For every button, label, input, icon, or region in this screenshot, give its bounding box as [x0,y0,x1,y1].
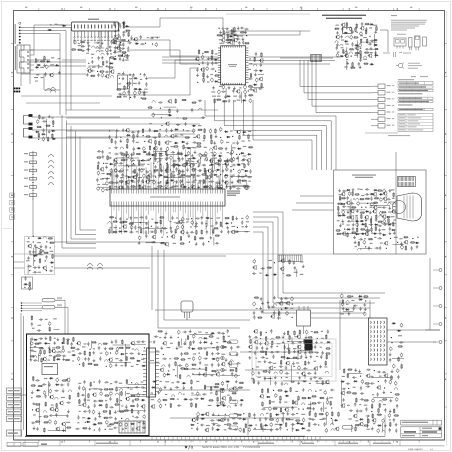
ground [119,49,122,52]
resistor R41 [198,49,200,54]
ground [240,403,243,406]
resistor R99 [183,145,185,150]
label [241,169,244,170]
ground [114,410,117,413]
transistor Q48 [165,168,169,173]
resistor R86 [127,138,129,143]
capacitor C393 [54,390,58,392]
label [38,325,42,326]
capacitor C121 [114,140,116,144]
transistor Q44 [196,134,200,139]
capacitor C105 [34,244,36,248]
capacitor C253 [139,216,143,218]
transistor Q52 [132,175,136,180]
capacitor C425 [77,356,80,361]
capacitor C424 [115,339,117,343]
wire [365,132,398,134]
capacitor C396 [49,419,52,424]
ground [244,30,247,33]
capacitor C258 [129,231,133,233]
wire [340,300,440,370]
capacitor C492 [194,398,198,400]
capacitor C85 [352,30,354,34]
resistor R123 [215,163,220,165]
label [141,169,145,170]
ground [170,128,173,131]
capacitor C383 [30,341,33,346]
capacitor C471 [183,331,187,333]
transistor Q103 [54,408,58,413]
capacitor C441 [98,379,100,383]
capacitor C232 [133,151,135,155]
label [188,358,191,359]
diode D112 [340,381,344,383]
capacitor C450 [82,386,85,391]
label [55,24,58,25]
diode D73 [244,170,248,172]
label [213,347,215,348]
label [33,351,36,352]
capacitor C34 [140,43,144,45]
ground [342,307,345,310]
capacitor C431 [140,386,144,388]
label [125,353,127,354]
resistor R167 [201,229,203,234]
IF module IC101 [72,19,119,48]
capacitor C122 [238,174,240,178]
label [198,182,201,183]
capacitor C31 [118,28,120,32]
capacitor C245 [194,225,198,227]
node junction [384,387,385,388]
capacitor C178 [220,139,223,144]
maker text [202,445,239,449]
capacitor C39 [128,74,132,76]
node junction [199,368,200,369]
capacitor C349 [377,371,381,373]
node junction [115,217,116,218]
wire [224,100,326,170]
CRT socket connector [398,177,416,187]
jumper arc [46,89,52,92]
capacitor C307 [378,225,382,227]
capacitor C337 [400,323,403,328]
capacitor C370 [358,410,362,412]
label [99,45,101,46]
node junction [352,296,353,297]
capacitor C228 [165,184,168,189]
capacitor C197 [236,187,240,189]
resistor R197 [340,203,345,205]
ground [87,41,90,44]
wire [226,88,241,103]
wire [46,119,48,138]
capacitor C332 [286,311,289,316]
resistor R331 [130,405,135,407]
ground [352,188,355,191]
ground [383,391,386,394]
resistor R12 [122,52,127,54]
label [347,206,351,207]
label [170,187,174,188]
ground [186,142,189,145]
resistor R105 [174,146,179,148]
transistor Q104 [49,407,53,412]
capacitor C230 [115,168,118,173]
capacitor C368 [356,409,358,413]
resistor R309 [116,398,118,403]
hatch block FB1 [311,55,322,62]
label [339,194,342,195]
label [169,141,171,142]
ground [369,211,372,214]
diode D135 [203,337,207,339]
diode D125 [136,360,140,362]
diode D46 [170,179,174,181]
resistor R266 [67,340,69,345]
resistor R92 [125,180,127,185]
label [371,233,373,234]
capacitor C432 [75,428,79,430]
resistor R50 [355,52,360,54]
capacitor C326 [271,306,275,308]
diode D22 [259,70,263,72]
opamp U1 [36,247,44,255]
label [216,217,220,218]
transistor Q43 [213,145,217,150]
coil [382,430,385,432]
transistor Q80 [346,201,350,206]
transistor Q117 [141,404,145,409]
node junction [200,171,201,172]
capacitor C167 [131,131,135,133]
label [177,174,179,175]
resistor R328 [106,403,108,408]
resistor R131 [181,174,186,176]
transistor Q110 [108,357,112,362]
node junction [215,71,216,72]
resistor R204 [392,222,394,227]
label [193,353,196,354]
ground [143,409,146,412]
transistor Q62 [178,220,182,225]
capacitor C375 [377,428,380,433]
capacitor C99 [358,62,360,66]
transistor Q99 [359,422,363,427]
label [342,376,345,377]
capacitor C277 [191,108,193,112]
capacitor C89 [361,22,363,26]
label [393,220,396,221]
transistor Q66 [152,235,156,240]
coil [349,52,352,54]
ground [43,64,46,67]
node junction [365,300,366,301]
transistor Q119 [159,367,163,372]
ground [177,156,180,159]
label [132,182,136,183]
wire [125,18,223,28]
label [37,242,41,243]
label [248,131,251,132]
transistor Q100 [42,357,46,362]
label [171,382,174,383]
node junction [88,63,89,64]
wire [37,59,50,61]
ground [145,76,148,79]
capacitor C236 [97,186,100,191]
resistor R232 [257,317,262,319]
ground [226,226,229,229]
diode D121 [36,389,40,391]
capacitor C3 [86,48,90,50]
capacitor C276 [158,101,162,103]
resistor R26 [244,42,249,44]
coil [116,393,119,395]
transistor Q69 [165,121,169,126]
resistor R368 [239,382,244,384]
transistor Q72 [391,209,395,214]
resistor R71 [47,137,49,142]
ground [133,95,136,98]
capacitor C360 [354,402,356,406]
diode D79 [118,231,122,233]
capacitor C299 [342,190,346,192]
capacitor C453 [84,398,86,402]
transistor Q16 [195,57,199,62]
resistor R34 [214,98,216,103]
ground [222,27,225,30]
ground [212,86,215,89]
wire [148,60,199,78]
capacitor C16 [101,73,104,78]
resistor R18 [125,30,130,32]
resistor R180 [180,236,182,241]
capacitor C310 [379,246,381,250]
capacitor C137 [222,179,224,183]
coil [120,169,123,171]
capacitor C17 [105,71,109,73]
ground [157,391,160,394]
capacitor C254 [134,225,136,229]
label [32,328,35,329]
capacitor C60 [239,94,241,98]
diode D117 [56,358,60,360]
wire [252,74,264,87]
capacitor C75 [248,78,252,80]
ground [371,427,374,430]
transistor Q113 [136,426,140,431]
ground [389,232,392,235]
capacitor C311 [368,246,370,250]
transistor Q11 [229,40,233,45]
diode D138 [212,358,216,360]
ground [181,179,184,182]
node junction [191,218,192,219]
capacitor C213 [140,168,143,173]
ground [391,370,394,373]
package drawings [394,34,427,51]
diode D76 [225,222,229,224]
jumper arcs3 [87,264,103,270]
transistor Q74 [372,209,376,214]
capacitor C353 [397,375,399,379]
resistor R124 [185,137,190,139]
ground [339,224,342,227]
label [32,251,36,252]
capacitor C86 [374,51,376,55]
resistor R249 [352,393,357,395]
label [277,317,281,318]
capacitor C444 [83,410,87,412]
resistor R166 [155,229,157,234]
capacitor C110 [33,266,37,268]
capacitor C148 [241,159,245,161]
node junction [141,97,142,98]
capacitor C381 [48,346,50,350]
resistor R134 [109,182,114,184]
transistor Q45 [207,168,211,173]
node junction [94,381,95,382]
label [194,333,196,334]
capacitor C459 [105,420,108,425]
capacitor C283 [365,188,369,190]
label [141,382,144,383]
ground [164,335,167,338]
ground [165,158,168,161]
wire [146,237,214,245]
diode D123 [120,353,124,355]
eyelet pin [433,341,442,344]
diode D91 [373,233,377,235]
capacitor C183 [137,130,139,134]
transistor Q4 [105,74,109,79]
wire [129,76,148,100]
capacitor C430 [78,386,80,390]
label [34,77,44,82]
ground [273,296,276,299]
transistor Q14 [233,38,237,43]
resistor R85 [241,180,246,182]
ground [375,218,378,221]
wire [128,40,199,56]
resistor R74 [44,252,49,254]
transistor Q42 [236,130,240,135]
ground [393,231,396,234]
node junction [186,221,187,222]
diode D137 [191,348,195,350]
capacitor C186 [119,152,123,154]
capacitor C193 [153,137,157,139]
resistor R31 [231,29,233,34]
resistor R49 [365,29,367,34]
capacitor C356 [361,379,364,384]
AC text [107,424,112,428]
diode D124 [141,365,145,367]
capacitor C68 [211,78,214,83]
capacitor C237 [97,171,100,176]
transistor Q88 [280,258,284,263]
node junction [150,158,151,159]
label [77,422,79,423]
resistor R195 [374,197,379,199]
diode D32 [354,44,358,46]
wire [118,153,239,190]
node junction [178,337,179,338]
node junction [122,429,123,430]
resistor R120 [153,130,158,132]
capacitor C38 [118,93,122,95]
transistor Q114 [92,392,96,397]
diode D78 [123,231,127,233]
capacitor C225 [210,180,214,182]
diode D7 [109,62,113,64]
transistor Q8 [112,37,116,42]
coil [96,50,99,52]
node junction [132,416,133,417]
label [165,394,167,395]
capacitor C304 [380,197,383,202]
transistor Q28 [42,265,46,270]
capacitor C300 [357,201,360,206]
ground [93,359,96,362]
wire [99,178,111,187]
label [33,414,36,415]
capacitor C255 [241,220,243,224]
capacitor C343 [363,311,366,316]
node junction [239,154,240,155]
label [126,164,128,165]
ground [209,236,212,239]
capacitor C263 [181,217,184,222]
diode D20 [214,81,218,83]
wire [54,242,226,268]
node junction [109,130,110,131]
capacitor C40 [138,90,141,95]
label [155,227,159,228]
label [354,55,358,56]
capacitor C217 [205,157,208,162]
node junction [103,163,104,164]
resistor R60 [366,39,368,44]
resistor R129 [149,145,151,150]
label [131,366,134,367]
label [186,160,190,161]
resistor R2 [71,49,76,51]
transistor Q123 [221,362,225,367]
ground [229,152,232,155]
resistor R336 [227,342,232,344]
resistor R242 [382,399,387,401]
ground [45,337,48,340]
label [374,237,376,238]
capacitor C74 [206,66,209,71]
capacitor C386 [53,355,57,357]
ground [359,58,362,61]
resistor R313 [131,408,133,413]
label [353,198,355,199]
capacitor C41 [127,90,129,94]
transistor Q55 [118,185,122,190]
label [186,219,190,220]
label [113,182,117,183]
diode D2 [35,66,39,68]
node junction [348,388,349,389]
capacitor C81 [255,52,257,56]
resistor R227 [368,238,373,240]
ground [195,242,198,245]
resistor R24 [124,85,126,90]
